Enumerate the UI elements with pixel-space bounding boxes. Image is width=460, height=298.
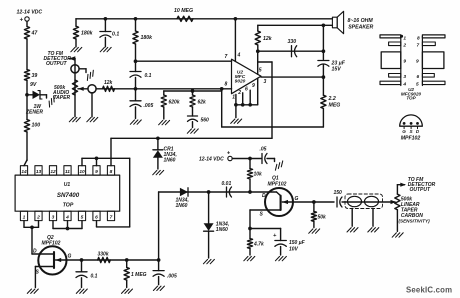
svg-text:12-14 VDC: 12-14 VDC — [199, 157, 224, 163]
svg-text:1N60: 1N60 — [164, 158, 176, 164]
svg-text:5: 5 — [259, 68, 262, 74]
svg-text:MPF102: MPF102 — [401, 136, 421, 142]
svg-text:9: 9 — [252, 83, 255, 89]
svg-text:TAPER: TAPER — [54, 95, 71, 101]
svg-text:12: 12 — [50, 169, 56, 175]
svg-text:13: 13 — [36, 169, 42, 175]
svg-text:1N60: 1N60 — [176, 203, 188, 209]
svg-text:1: 1 — [232, 95, 235, 101]
svg-text:(SENSITIVITY): (SENSITIVITY) — [399, 219, 431, 224]
svg-text:MPF102: MPF102 — [268, 182, 287, 188]
svg-text:15V: 15V — [332, 67, 342, 73]
svg-text:8~16 OHM: 8~16 OHM — [348, 18, 374, 24]
svg-text:TOP: TOP — [406, 96, 416, 101]
svg-text:150: 150 — [334, 190, 343, 196]
svg-text:10V: 10V — [289, 247, 299, 253]
svg-text:47: 47 — [31, 31, 39, 37]
svg-text:12k: 12k — [263, 36, 273, 42]
svg-text:620k: 620k — [169, 100, 180, 106]
svg-text:OUTPUT: OUTPUT — [410, 187, 432, 193]
svg-text:7: 7 — [110, 215, 113, 221]
svg-text:3: 3 — [52, 215, 55, 221]
svg-text:TOP: TOP — [63, 203, 74, 209]
svg-text:U1: U1 — [64, 182, 71, 188]
svg-text:100: 100 — [32, 123, 41, 129]
svg-text:5: 5 — [416, 82, 419, 88]
svg-text:6: 6 — [95, 215, 98, 221]
svg-text:10: 10 — [79, 169, 85, 175]
svg-text:3: 3 — [264, 79, 267, 85]
svg-text:5: 5 — [81, 215, 84, 221]
svg-text:4: 4 — [402, 82, 406, 88]
svg-text:OUTPUT: OUTPUT — [46, 61, 68, 67]
svg-text:SN7400: SN7400 — [57, 192, 80, 199]
svg-text:7: 7 — [417, 43, 420, 49]
svg-text:.05: .05 — [260, 147, 267, 153]
svg-text:9: 9 — [95, 169, 98, 175]
svg-text:7: 7 — [225, 54, 228, 60]
svg-text:10 MEG: 10 MEG — [174, 8, 193, 14]
svg-text:180k: 180k — [81, 31, 94, 37]
svg-text:2.2: 2.2 — [328, 96, 336, 102]
svg-text:9: 9 — [416, 59, 419, 65]
svg-text:MPF102: MPF102 — [42, 241, 61, 247]
svg-text:39: 39 — [32, 73, 38, 79]
svg-text:50k: 50k — [318, 215, 327, 221]
svg-text:8: 8 — [417, 36, 420, 42]
svg-text:9: 9 — [403, 59, 406, 65]
svg-text:1N60: 1N60 — [216, 227, 228, 233]
svg-text:9020: 9020 — [235, 79, 246, 85]
svg-text:2: 2 — [36, 215, 40, 221]
svg-text:180k: 180k — [141, 35, 154, 41]
svg-text:D: D — [262, 193, 266, 199]
svg-text:3: 3 — [403, 74, 406, 80]
svg-text:4: 4 — [65, 215, 69, 221]
svg-text:2: 2 — [237, 90, 241, 96]
svg-text:SPEAKER: SPEAKER — [348, 25, 373, 31]
svg-text:8: 8 — [110, 169, 113, 175]
svg-text:10k: 10k — [254, 172, 263, 178]
svg-text:0.01: 0.01 — [222, 181, 232, 187]
svg-text:12-14 VDC: 12-14 VDC — [17, 10, 43, 16]
svg-text:G: G — [402, 129, 406, 134]
svg-text:MEG: MEG — [329, 103, 341, 109]
svg-text:560: 560 — [201, 118, 210, 124]
svg-text:G: G — [295, 196, 299, 202]
svg-text:SeekIC.com: SeekIC.com — [406, 286, 452, 295]
svg-text:0.1: 0.1 — [112, 32, 119, 38]
svg-text:.005: .005 — [144, 103, 154, 109]
svg-text:330k: 330k — [98, 252, 109, 258]
svg-text:14: 14 — [21, 169, 27, 175]
svg-text:12k: 12k — [104, 80, 113, 86]
svg-text:G: G — [68, 254, 72, 260]
svg-text:4.7k: 4.7k — [253, 242, 264, 248]
svg-text:1: 1 — [23, 215, 26, 221]
svg-text:6: 6 — [245, 87, 248, 93]
svg-text:9V: 9V — [30, 82, 37, 88]
svg-text:1: 1 — [403, 36, 406, 42]
svg-text:2: 2 — [402, 43, 406, 49]
svg-text:ZENER: ZENER — [25, 110, 43, 116]
svg-text:.005: .005 — [167, 274, 177, 280]
svg-text:+: + — [20, 18, 24, 24]
svg-text:4: 4 — [237, 53, 241, 59]
svg-text:8: 8 — [225, 82, 228, 88]
svg-text:0.1: 0.1 — [145, 73, 152, 79]
svg-text:62k: 62k — [198, 100, 207, 106]
svg-text:330: 330 — [288, 39, 297, 45]
svg-text:11: 11 — [65, 169, 70, 175]
svg-text:6: 6 — [417, 74, 420, 80]
svg-text:0.1: 0.1 — [91, 274, 98, 280]
svg-text:D: D — [33, 249, 37, 255]
svg-text:150 µF: 150 µF — [289, 240, 306, 246]
svg-text:1 MEG: 1 MEG — [131, 272, 147, 278]
